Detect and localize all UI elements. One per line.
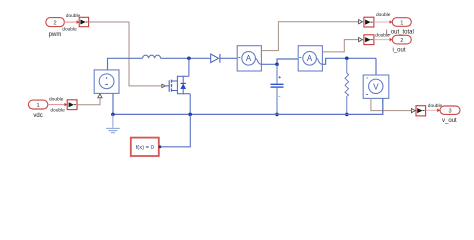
physical signal wire: pwm converter -> MOSFET gate <box>89 22 162 86</box>
Simulink-PS converter (vdc) <box>67 100 77 110</box>
ground <box>106 114 120 132</box>
svg-text:i_out_total: i_out_total <box>386 29 414 35</box>
svg-text:pwm: pwm <box>49 32 62 38</box>
PS input port triangle (converter 2) <box>359 38 363 42</box>
voltage sensor <box>363 75 389 98</box>
svg-text:double: double <box>376 12 391 18</box>
svg-text:double: double <box>50 108 65 114</box>
wire: MOSFET source to bottom rail <box>189 94 191 115</box>
svg-text:1: 1 <box>37 103 40 109</box>
wire: source + terminal to top rail <box>107 58 109 70</box>
svg-text:double: double <box>62 27 77 33</box>
input port 2 (pwm) <box>46 18 65 27</box>
svg-text:vdc: vdc <box>33 113 42 119</box>
wire: sensor1 output to capacitor junction <box>261 59 298 64</box>
svg-text:double: double <box>66 13 81 19</box>
PS-Simulink converter 3 <box>416 106 426 116</box>
signal wire converter 3 -> output port 3 <box>426 109 440 113</box>
svg-text:1: 1 <box>400 20 403 26</box>
signal wire converter 1 -> output port 1 <box>374 20 392 24</box>
svg-text:i_out: i_out <box>392 48 405 54</box>
svg-text:f(x) = 0: f(x) = 0 <box>136 145 154 151</box>
svg-text:double: double <box>49 97 64 103</box>
output port 2 <box>392 35 411 44</box>
junction: MOSFET source / solver on bottom rail <box>188 113 192 117</box>
MOSFET Q1 <box>162 76 190 93</box>
PS-Simulink converter 2 <box>364 35 374 45</box>
inductor L <box>143 55 161 58</box>
node: drain junction on top rail <box>187 57 191 61</box>
physical signal wire: vdc converter -> voltage source control input <box>78 98 100 104</box>
svg-text:A: A <box>246 54 252 63</box>
bottom rail wire <box>113 98 383 114</box>
signal wire pwm -> converter <box>64 20 80 24</box>
svg-text:A: A <box>307 54 313 63</box>
capacitor C <box>271 64 284 114</box>
svg-text:3: 3 <box>448 109 451 115</box>
PS input port triangle (converter 1) <box>359 20 363 24</box>
Simulink-PS converter (pwm) <box>79 17 88 26</box>
top rail wire: inductor to diode <box>161 57 211 59</box>
svg-text:V: V <box>373 82 379 91</box>
signal wire converter 2 -> output port 2 <box>374 38 392 42</box>
wire: source - terminal to bottom rail <box>112 93 114 114</box>
PS-Simulink converter 1 <box>364 17 374 27</box>
current sensor 1 <box>237 46 261 71</box>
svg-text:2: 2 <box>400 38 403 44</box>
wire: node down to voltmeter + <box>375 58 377 75</box>
signal wire vdc -> converter <box>48 103 67 107</box>
PS input port triangle (converter 3) <box>411 109 415 113</box>
wire: MOSFET drain to top rail node <box>188 58 190 76</box>
junction: ground / source on bottom rail <box>111 113 115 117</box>
top rail wire: source to inductor <box>107 57 143 59</box>
svg-text:double: double <box>375 33 390 39</box>
wire: diode to current sensor 1 <box>220 57 237 59</box>
physical signal wire: voltmeter -> PS-Simulink converter 3 <box>371 98 411 110</box>
physical signal wire: sensor2 -> PS-Simulink converter 2 <box>322 40 358 52</box>
diode D <box>211 54 220 63</box>
junction: capacitor on bottom rail <box>275 113 279 117</box>
svg-text:2: 2 <box>53 20 56 26</box>
input port 1 (vdc) <box>28 100 47 109</box>
svg-text:v_out: v_out <box>442 118 457 124</box>
junction: resistor tap <box>345 57 349 61</box>
output port 1 <box>392 18 411 27</box>
current sensor 2 <box>298 46 322 71</box>
wire: sensor2 output to load node <box>322 58 376 64</box>
output port 3 <box>440 106 460 115</box>
solver configuration block f(x)=0 <box>131 138 161 156</box>
junction: capacitor tap <box>275 63 279 67</box>
resistor R load <box>345 58 349 114</box>
wire: solver to bottom rail <box>161 114 190 146</box>
controlled voltage source <box>94 70 119 98</box>
physical signal wire: sensor1 -> PS-Simulink converter 1 <box>261 22 358 51</box>
junction: resistor on bottom rail <box>345 113 349 117</box>
